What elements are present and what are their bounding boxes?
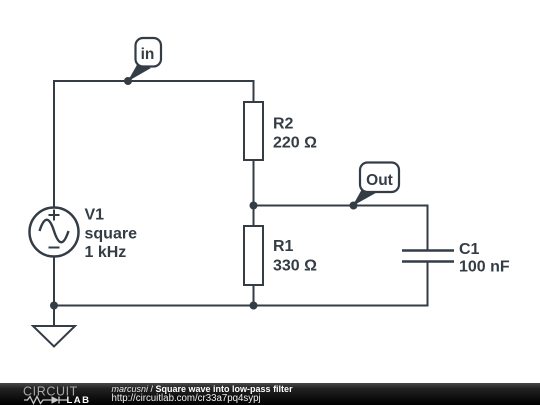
svg-text:R2: R2 <box>273 116 294 133</box>
svg-text:220 Ω: 220 Ω <box>273 134 317 151</box>
svg-text:330 Ω: 330 Ω <box>273 258 317 275</box>
svg-text:square: square <box>85 226 138 243</box>
svg-text:LAB: LAB <box>67 395 91 405</box>
svg-text:1 kHz: 1 kHz <box>85 244 127 261</box>
svg-text:http://circuitlab.com/cr33a7pq: http://circuitlab.com/cr33a7pq4sypj <box>112 393 261 404</box>
svg-text:in: in <box>141 46 155 63</box>
svg-text:V1: V1 <box>85 207 105 224</box>
svg-text:100 nF: 100 nF <box>459 259 510 276</box>
svg-text:R1: R1 <box>273 238 294 255</box>
svg-text:C1: C1 <box>459 241 480 258</box>
svg-text:Out: Out <box>366 172 393 189</box>
